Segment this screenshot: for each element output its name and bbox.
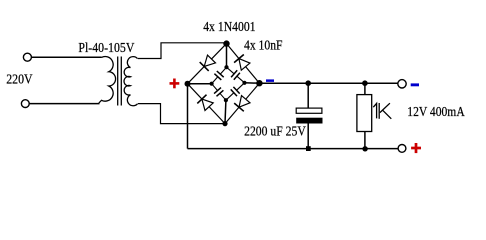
capacitor C2 (10nF): [227, 67, 245, 83]
diode D3 (1N4001): [234, 55, 250, 71]
minus sign at bridge - node: [266, 79, 274, 82]
wire bridge side top-left: [188, 44, 227, 84]
wire bridge side top-right: [227, 44, 260, 84]
label 1K (drawn strokes): [373, 103, 391, 119]
resistor R1 top lead: [364, 83, 366, 94]
node + (bridge left): [185, 81, 191, 87]
label 4x 10nF: [244, 38, 283, 53]
wire bridge side bottom-left: [188, 84, 226, 124]
transformer T1 core: [117, 57, 119, 106]
resistor R1 bottom lead: [364, 132, 366, 149]
junction bottom rail / R1: [362, 146, 367, 151]
svg-text:Pl-40-105V: Pl-40-105V: [78, 40, 134, 55]
junction inner top: [224, 65, 228, 69]
transformer T1 primary winding: [99, 57, 116, 104]
wire bottom node to inner junction: [224, 100, 227, 123]
wire top rail (minus): [259, 82, 398, 84]
capacitor C4 (10nF): [212, 84, 226, 101]
transformer T1 secondary winding: [124, 57, 137, 106]
label 2200 uF 25V: [244, 124, 306, 139]
diode D4 (1N4001): [234, 96, 250, 112]
plus sign at bridge + node: [170, 79, 180, 89]
wire left node to inner junction: [188, 83, 212, 85]
terminal 220V top: [23, 53, 31, 61]
svg-text:2200 uF 25V: 2200 uF 25V: [244, 124, 306, 139]
diode D1 (1N4001): [200, 55, 216, 71]
label Pl-40-105V: [78, 40, 134, 55]
wire bridge side bottom-right: [225, 83, 259, 123]
wire 220V top to primary: [32, 56, 102, 58]
svg-text:12V 400mA: 12V 400mA: [407, 104, 465, 119]
capacitor C3 (10nF): [226, 83, 245, 100]
junction inner left: [210, 82, 214, 86]
capacitor C5 2200uF top lead: [307, 83, 309, 108]
minus sign at output: [411, 83, 419, 86]
junction inner right: [242, 81, 246, 85]
wire left node down (plus): [187, 84, 189, 149]
plus sign at output: [411, 143, 421, 153]
node - (bridge right): [256, 80, 262, 86]
capacitor C5 2200uF bottom lead: [307, 124, 309, 149]
terminal output minus: [398, 80, 406, 88]
wire right node to inner junction: [245, 82, 260, 84]
node AC bottom: [222, 121, 227, 126]
terminal output plus: [398, 145, 406, 153]
wire bottom rail (plus): [188, 148, 399, 150]
capacitor C5 2200uF plates: [296, 108, 322, 123]
junction top rail / C5: [305, 80, 311, 86]
node AC top: [223, 40, 229, 46]
wire secondary top to bridge top node: [138, 43, 227, 59]
wire 220V bottom to primary: [29, 103, 99, 105]
svg-text:4x 1N4001: 4x 1N4001: [203, 19, 255, 34]
label 4x 1N4001: [203, 19, 255, 34]
junction inner bottom: [224, 98, 228, 102]
capacitor C1 (10nF): [212, 67, 227, 84]
wire top node to inner junction: [226, 44, 228, 68]
svg-text:220V: 220V: [6, 72, 33, 87]
terminal 220V bottom: [21, 100, 29, 108]
wire secondary bottom to bridge bottom node: [138, 104, 225, 124]
svg-text:4x 10nF: 4x 10nF: [244, 38, 283, 53]
label 220V: [6, 72, 33, 87]
junction top rail / R1: [362, 80, 368, 86]
resistor R1 body: [357, 95, 372, 132]
junction bottom rail / C5 (square): [306, 146, 311, 151]
label 12V 400mA: [407, 104, 465, 119]
diode D2 (1N4001): [197, 95, 213, 111]
